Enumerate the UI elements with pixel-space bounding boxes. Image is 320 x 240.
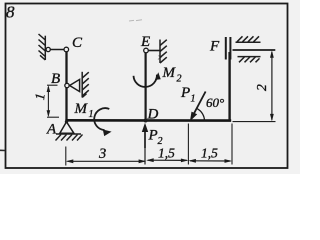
- svg-text:D: D: [147, 107, 159, 123]
- pin E: [144, 48, 149, 53]
- svg-text:A: A: [46, 122, 57, 138]
- extension line below beam right end: [231, 124, 233, 165]
- dimension 1,5 first line: [148, 159, 187, 161]
- extension line below P1 point: [187, 124, 189, 165]
- wall at E: [160, 40, 167, 64]
- wall at C: [39, 34, 46, 60]
- support arm at F: [233, 49, 276, 51]
- dimension 3 extension line at A: [65, 147, 67, 166]
- pin support A (triangle): [60, 122, 74, 134]
- force P1 (60 deg arrow into beam): [193, 92, 206, 116]
- link C-wall: [48, 49, 67, 51]
- moment M2 arrowhead: [155, 72, 161, 80]
- svg-text:1: 1: [191, 94, 196, 105]
- force P2 (upward arrow below D): [144, 128, 146, 148]
- svg-text:B: B: [51, 71, 60, 87]
- wall at B: [82, 72, 89, 98]
- sliding support F: slider plates: [225, 37, 227, 60]
- extension line below D: [144, 148, 146, 165]
- svg-text:C: C: [72, 35, 83, 51]
- svg-text:1: 1: [89, 109, 94, 120]
- roller support B (triangle to wall): [70, 79, 80, 91]
- moment M1 arc: [94, 108, 109, 130]
- dimension 3 line: [68, 160, 145, 162]
- svg-text:8: 8: [6, 3, 15, 22]
- ground hatching at A: [56, 134, 83, 141]
- faint smudge above M2: [158, 56, 162, 60]
- svg-text:P: P: [180, 85, 190, 101]
- faint smudge near top middle: [129, 20, 142, 21]
- wall block above F arm: [236, 36, 261, 42]
- angle arc 60 deg: [197, 109, 204, 121]
- link E-wall: [148, 50, 160, 52]
- svg-text:E: E: [140, 34, 150, 50]
- moment M1 arrowhead: [103, 130, 112, 137]
- dimension 1,5 second line: [190, 160, 230, 162]
- svg-text:M: M: [162, 65, 177, 81]
- pin B: [65, 83, 69, 87]
- svg-text:3: 3: [98, 146, 106, 162]
- svg-text:60°: 60°: [206, 95, 224, 110]
- svg-text:P: P: [148, 128, 158, 144]
- dimension 1 (A to B): [47, 85, 59, 117]
- pin at wall end of link: [46, 47, 50, 51]
- member F-beam (right column): [228, 52, 230, 121]
- svg-text:2: 2: [177, 74, 182, 85]
- svg-text:M: M: [74, 101, 89, 117]
- beam A-D-right end: [65, 119, 231, 122]
- pin C: [64, 47, 69, 52]
- paper background: [0, 0, 300, 174]
- node D junction dot: [144, 119, 148, 123]
- svg-text:F: F: [209, 39, 220, 55]
- wall block below F arm: [238, 57, 261, 63]
- svg-text:2: 2: [254, 84, 269, 91]
- extension line from beam end to dimension 2: [233, 121, 276, 123]
- svg-text:1,5: 1,5: [201, 146, 218, 161]
- moment M2 arc: [134, 75, 157, 87]
- member A-C (left column): [65, 51, 67, 122]
- edge tick left border: [0, 149, 5, 151]
- member E-D (middle column): [145, 53, 147, 121]
- dimension 2 line: [271, 52, 273, 120]
- svg-text:1,5: 1,5: [158, 146, 175, 161]
